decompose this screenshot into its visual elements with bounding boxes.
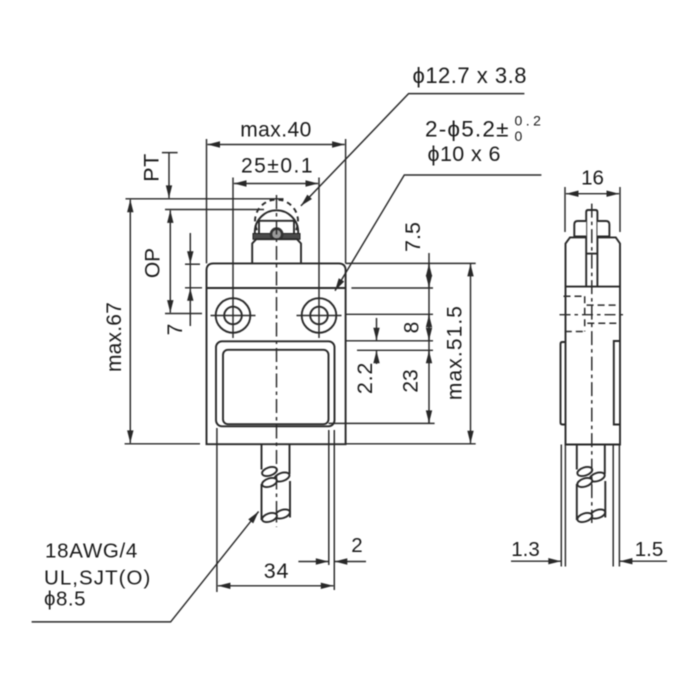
dim 1.5 bbox=[620, 538, 667, 561]
svg-text:1.5: 1.5 bbox=[635, 538, 664, 561]
svg-text:7: 7 bbox=[164, 324, 187, 336]
plunger base plate bbox=[253, 234, 300, 240]
fork plate right bbox=[597, 221, 609, 237]
svg-text:ϕ10 x 6: ϕ10 x 6 bbox=[428, 142, 501, 166]
side head/body bbox=[566, 237, 621, 444]
dim 2 bbox=[298, 534, 366, 562]
side head bottom line bbox=[566, 286, 621, 288]
front cable bbox=[261, 445, 291, 524]
svg-text:1.3: 1.3 bbox=[511, 538, 540, 561]
dim 25+-0.1 bbox=[234, 155, 318, 184]
svg-text:25±0.1: 25±0.1 bbox=[241, 155, 314, 178]
dim 1.3 bbox=[511, 538, 561, 561]
svg-text:8: 8 bbox=[401, 322, 424, 334]
svg-text:2: 2 bbox=[351, 534, 362, 557]
cover plate outer bbox=[216, 341, 335, 426]
cover plate inner bbox=[223, 350, 329, 424]
svg-text:PT: PT bbox=[140, 153, 164, 181]
svg-text:OP: OP bbox=[142, 248, 165, 278]
svg-text:UL,SJT(O): UL,SJT(O) bbox=[44, 567, 151, 590]
right extension lines bbox=[346, 262, 476, 264]
plunger bushing bbox=[252, 239, 301, 263]
fork plate left bbox=[574, 221, 586, 237]
bottom extension lines bbox=[216, 428, 218, 592]
hole centerline left ext bbox=[165, 313, 202, 315]
svg-text:ϕ12.7 x 3.8: ϕ12.7 x 3.8 bbox=[413, 63, 527, 88]
svg-text:max.51.5: max.51.5 bbox=[444, 305, 467, 400]
svg-text:0.2: 0.2 bbox=[515, 113, 545, 129]
side cable bbox=[576, 445, 606, 524]
hidden mechanism dashes bbox=[564, 295, 586, 297]
mounting hole right bbox=[302, 298, 337, 333]
svg-text:2.2: 2.2 bbox=[353, 362, 377, 394]
svg-text:0: 0 bbox=[515, 128, 523, 144]
dim max.51.5 bbox=[444, 264, 471, 444]
side roller bbox=[586, 210, 597, 287]
dashed roller (released position) bbox=[255, 200, 298, 231]
dim max.67 bbox=[103, 200, 200, 444]
side cover strip left bbox=[561, 342, 566, 425]
svg-text:18AWG/4: 18AWG/4 bbox=[45, 540, 138, 563]
dim OP bbox=[142, 210, 171, 312]
dim 7 left bbox=[164, 233, 202, 335]
label phi12.7x3.8 bbox=[301, 63, 527, 206]
free position line bbox=[126, 198, 284, 200]
side cover line right bbox=[614, 341, 620, 425]
roller slot bottom bbox=[586, 253, 597, 255]
head bottom line bbox=[207, 287, 346, 289]
front centerline bbox=[276, 195, 278, 527]
mounting hole extension/centerlines bbox=[232, 178, 234, 339]
label 18AWG cable bbox=[32, 512, 259, 622]
side centerline bbox=[591, 204, 593, 523]
svg-text:7.5: 7.5 bbox=[401, 222, 425, 252]
dim 2.2 bbox=[353, 318, 377, 394]
switch body bbox=[207, 263, 346, 444]
dim PT bbox=[140, 153, 178, 198]
svg-text:ϕ8.5: ϕ8.5 bbox=[44, 588, 86, 611]
label 2-phi5.2 tol bbox=[425, 113, 544, 145]
svg-text:2-ϕ5.2±: 2-ϕ5.2± bbox=[425, 117, 510, 142]
svg-text:max.40: max.40 bbox=[240, 119, 312, 142]
dim 34 bbox=[218, 559, 334, 586]
hole centerline through side bbox=[560, 314, 627, 316]
roller pin boss bbox=[271, 229, 282, 240]
dim 7.5 / 8 / 23 shaft bbox=[400, 222, 430, 423]
dim max.40 bbox=[207, 119, 346, 264]
roller fork bbox=[259, 221, 294, 236]
svg-text:16: 16 bbox=[581, 167, 604, 190]
svg-text:max.67: max.67 bbox=[103, 302, 126, 372]
label phi10x6 bbox=[335, 142, 541, 291]
svg-text:34: 34 bbox=[264, 559, 290, 583]
svg-text:23: 23 bbox=[400, 369, 423, 392]
mounting hole left bbox=[216, 298, 251, 333]
roller bbox=[255, 210, 298, 253]
OP position line bbox=[165, 209, 264, 211]
dim 16 bbox=[565, 167, 620, 233]
bottom ext lines side bbox=[560, 445, 562, 567]
